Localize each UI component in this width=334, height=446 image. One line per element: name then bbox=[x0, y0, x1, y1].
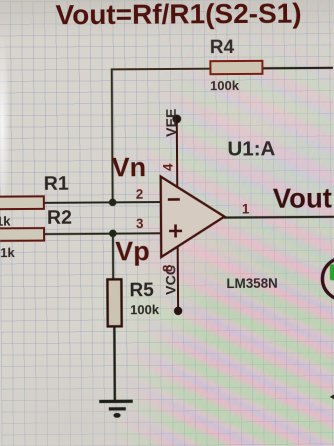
power terminal VEE dot bbox=[172, 114, 181, 123]
resistor R2 bbox=[0, 207, 72, 261]
svg-text:R4: R4 bbox=[210, 37, 235, 58]
wire Vp node down to R5 bbox=[112, 233, 114, 279]
svg-text:U1:A: U1:A bbox=[227, 137, 275, 160]
svg-text:VEE: VEE bbox=[164, 109, 180, 138]
wire R2 to pin 3 bbox=[44, 232, 161, 235]
resistor R1 bbox=[0, 173, 69, 229]
wire R1 to pin 2 bbox=[44, 201, 161, 204]
wire R5 to ground bbox=[113, 326, 116, 401]
svg-text:LM358N: LM358N bbox=[226, 276, 277, 291]
wire feedback vertical bbox=[111, 68, 114, 202]
svg-text:R2: R2 bbox=[47, 207, 72, 229]
svg-text:1: 1 bbox=[242, 201, 250, 216]
resistor R4 bbox=[210, 37, 263, 93]
svg-text:R1: R1 bbox=[44, 173, 69, 195]
svg-text:1k: 1k bbox=[0, 214, 11, 229]
svg-text:R5: R5 bbox=[129, 280, 154, 301]
wire VEE pin 4 bbox=[176, 119, 178, 188]
edge artifact bottom right bbox=[330, 394, 334, 400]
wire feedback top horizontal bbox=[111, 68, 210, 71]
wire R4 output to right edge bbox=[262, 67, 334, 70]
svg-text:Vp: Vp bbox=[115, 236, 150, 266]
wire VCC pin 8 bbox=[177, 247, 179, 311]
junction node Vp bbox=[109, 230, 117, 238]
probe circle (clipped at right edge) bbox=[322, 258, 334, 300]
svg-text:VCC: VCC bbox=[163, 265, 179, 295]
svg-text:100k: 100k bbox=[210, 78, 240, 93]
resistor R5 bbox=[107, 279, 160, 326]
svg-text:100k: 100k bbox=[130, 302, 160, 317]
ground bbox=[99, 401, 133, 418]
svg-text:2: 2 bbox=[136, 187, 144, 202]
svg-text:Vout=Rf/R1(S2-S1): Vout=Rf/R1(S2-S1) bbox=[55, 0, 301, 30]
svg-text:Vout: Vout bbox=[273, 182, 332, 213]
svg-text:4: 4 bbox=[161, 163, 176, 171]
op-amp U1 LM358N bbox=[161, 176, 225, 257]
junction node Vn bbox=[109, 199, 117, 207]
svg-text:3: 3 bbox=[136, 216, 144, 231]
power terminal VCC dot bbox=[174, 307, 182, 315]
wire output Vout bbox=[224, 216, 334, 219]
svg-text:1k: 1k bbox=[0, 245, 15, 260]
svg-text:Vn: Vn bbox=[112, 152, 147, 182]
